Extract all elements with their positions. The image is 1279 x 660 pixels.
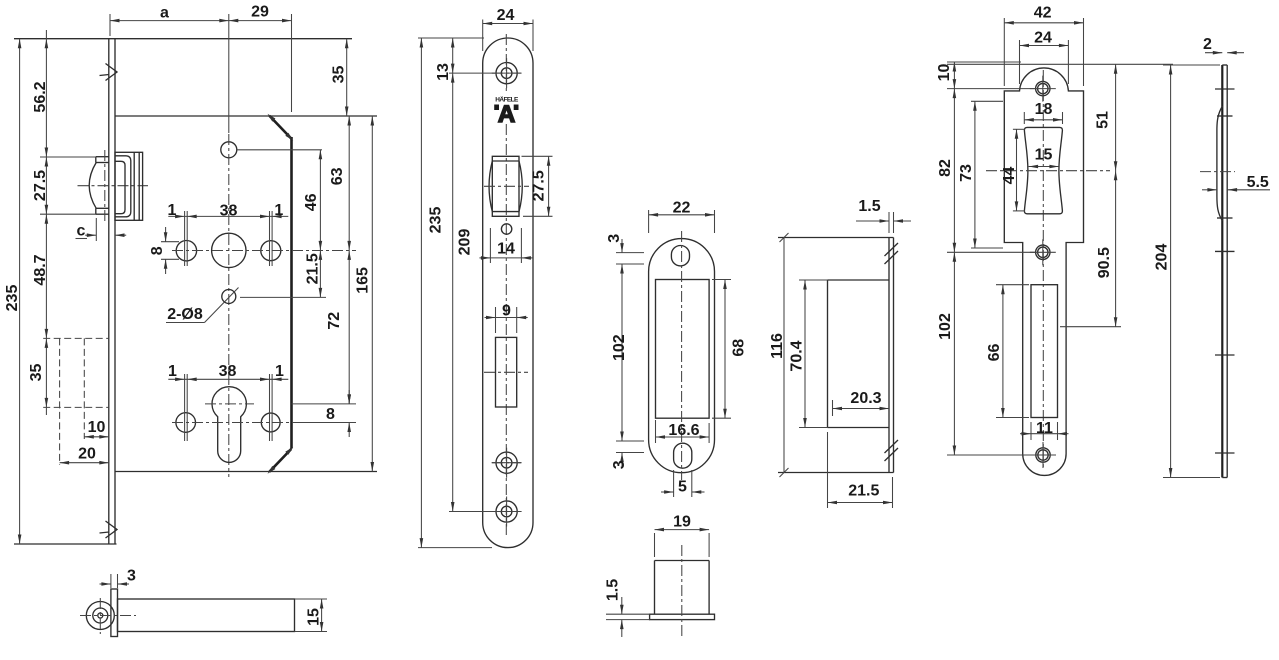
horizontal centerline lower holes: [172, 422, 356, 424]
horizontal centerline cylinder: [205, 403, 356, 405]
dimension 11: [1020, 420, 1069, 440]
screw hole 3: [1030, 442, 1056, 468]
dimension 2: [1203, 36, 1244, 55]
svg-text:19: 19: [673, 513, 691, 530]
svg-text:38: 38: [220, 203, 238, 220]
dimension 13 / 209: [435, 38, 474, 512]
dimension 16.6: [656, 420, 710, 443]
svg-text:63: 63: [329, 167, 346, 185]
latch bump side: [1217, 106, 1223, 221]
dimension 20: [60, 446, 109, 465]
screw hole middle: [492, 448, 522, 478]
faceplate (side view, 235 long): [14, 39, 352, 544]
latch bolt head: [89, 157, 109, 215]
svg-text:27.5: 27.5: [531, 170, 548, 201]
svg-text:46: 46: [303, 193, 320, 211]
section marks strike plate: [885, 243, 899, 461]
top fixing hole: [221, 142, 237, 158]
svg-text:5: 5: [678, 478, 687, 495]
svg-text:1: 1: [168, 363, 177, 380]
svg-text:82: 82: [937, 159, 954, 177]
dimension 22: [649, 200, 715, 233]
svg-text:204: 204: [1154, 244, 1171, 271]
svg-text:1: 1: [275, 363, 284, 380]
svg-text:22: 22: [673, 200, 691, 217]
dimension 21.5: [828, 432, 893, 508]
svg-text:102: 102: [611, 334, 628, 361]
dimension 10 / 82 / 102 chain: [936, 62, 1035, 455]
deadbolt slot: [496, 337, 517, 407]
vertical centerline lock body: [228, 134, 230, 477]
strike box housing: [828, 280, 890, 428]
svg-text:90.5: 90.5: [1096, 247, 1113, 278]
oval slot top: [671, 246, 689, 266]
svg-text:20: 20: [78, 446, 96, 463]
dimension 66: [986, 285, 1029, 418]
svg-text:29: 29: [251, 4, 269, 21]
strike side plate: [778, 238, 894, 473]
dimension 116: [769, 233, 788, 477]
dimension 1-38-1 lower: [168, 363, 288, 381]
dimension 204: [1154, 65, 1220, 478]
svg-text:35: 35: [331, 66, 348, 84]
spindle roller: [86, 602, 114, 630]
oval strike plate outline: [649, 239, 715, 473]
svg-text:42: 42: [1034, 5, 1052, 22]
svg-text:48.7: 48.7: [32, 254, 49, 285]
horizontal centerline upper holes: [172, 250, 356, 252]
svg-text:3: 3: [127, 568, 136, 585]
strike slot: [1031, 285, 1058, 418]
profile cylinder hole: [212, 387, 246, 463]
dimension 27.5 (latch): [522, 156, 553, 216]
svg-text:21.5: 21.5: [304, 253, 321, 284]
dimension 20.3: [833, 390, 890, 416]
svg-text:13: 13: [435, 63, 452, 81]
dimension 1-38-1 upper: [168, 202, 289, 219]
svg-text:24: 24: [497, 7, 515, 24]
latch horizontal centerline: [484, 185, 529, 187]
latch front view: [489, 156, 522, 216]
svg-text:5.5: 5.5: [1247, 174, 1269, 191]
strike plate outline: [1004, 68, 1083, 475]
cylinder hole left: [176, 413, 196, 433]
svg-text:235: 235: [428, 207, 445, 234]
svg-text:72: 72: [326, 312, 343, 330]
dimension 14: [479, 228, 532, 263]
magnet cup body: [655, 561, 710, 615]
dimension c: [76, 218, 127, 241]
svg-text:3: 3: [611, 460, 628, 469]
dimension 10: [84, 419, 109, 439]
svg-text:56.2: 56.2: [32, 81, 49, 112]
svg-text:70.4: 70.4: [789, 340, 806, 371]
oval plate centerline: [681, 231, 683, 480]
dimension 3 (flange): [100, 568, 137, 589]
svg-text:35: 35: [28, 364, 45, 382]
extension line top hole: [238, 149, 323, 151]
svg-text:116: 116: [769, 333, 786, 359]
dimension 3 / 102 / 3 left: [606, 234, 644, 469]
svg-text:2-Ø8: 2-Ø8: [167, 306, 203, 323]
dimension 24 (tab): [1020, 30, 1069, 84]
svg-text:165: 165: [355, 267, 372, 294]
strike plate side: [1222, 65, 1227, 478]
dimension 15 (bar): [295, 599, 328, 632]
latch pin hole: [501, 224, 511, 234]
svg-text:15: 15: [306, 608, 323, 626]
dimension 9: [485, 303, 528, 333]
chamfer edge bottom (bold double arrow): [268, 447, 294, 474]
svg-text:38: 38: [219, 363, 237, 380]
magnet cup flange: [650, 614, 715, 619]
svg-text:73: 73: [958, 164, 975, 182]
screw hole 1: [1030, 76, 1056, 102]
oval slot bottom: [674, 443, 692, 468]
offset lines upper right: [270, 211, 273, 266]
dimension 35 top right: [331, 39, 349, 116]
svg-text:10: 10: [936, 64, 953, 82]
häfele logo: [494, 96, 519, 129]
dimension 235 (plate): [420, 38, 445, 548]
spindle centerline: [80, 598, 136, 634]
extension line 2-Ø8 right: [240, 296, 326, 298]
svg-text:c: c: [77, 222, 86, 239]
hole 2-Ø8: [222, 290, 236, 304]
svg-text:2: 2: [1203, 36, 1212, 53]
screw hole bottom: [492, 497, 522, 527]
faceplate break mark top: [100, 64, 118, 81]
dimension 18: [1024, 101, 1062, 124]
cutout horizontal centerline: [986, 170, 1110, 172]
svg-text:18: 18: [1035, 101, 1053, 118]
dimension 19: [655, 513, 710, 557]
faceplate break mark bottom: [100, 521, 118, 538]
dimension 8 upper: [149, 227, 179, 274]
dimension 73: [958, 101, 1003, 248]
dimension 5.5: [1202, 174, 1270, 192]
dimension 44: [1001, 129, 1025, 211]
dimension 24 top (plate width): [483, 7, 533, 51]
dimension 70.4: [789, 280, 828, 428]
side view tick marks: [1215, 89, 1235, 453]
svg-text:1: 1: [274, 202, 283, 219]
dimension 1.5 (cup flange): [605, 579, 650, 637]
deadbolt hidden lines: [43, 338, 109, 465]
dimension chain left (56.2/27.5/48.7/35): [28, 30, 49, 415]
svg-text:8: 8: [326, 406, 335, 423]
svg-text:9: 9: [502, 303, 511, 320]
offset lines lower left: [185, 374, 188, 441]
side view centerline: [1200, 171, 1235, 173]
svg-text:1: 1: [168, 202, 177, 219]
screw centerlines: [492, 73, 521, 511]
slot centerline: [484, 371, 528, 373]
label 2-Ø8 with leader: [166, 288, 239, 324]
handle hole right: [261, 241, 281, 261]
svg-text:14: 14: [497, 241, 515, 258]
svg-text:15: 15: [1035, 146, 1053, 163]
dimension 5: [661, 470, 705, 497]
dimension 15 (waist): [1029, 146, 1059, 168]
latch spring housing: [115, 152, 143, 220]
face plate centerline: [505, 34, 507, 538]
follower hole: [212, 233, 246, 267]
dimension a / 29 top: [110, 4, 292, 134]
svg-text:209: 209: [457, 229, 474, 256]
svg-text:21.5: 21.5: [848, 483, 879, 500]
latch cutout: [1024, 127, 1062, 213]
dimension 68: [712, 280, 748, 419]
screw hole top: [492, 58, 522, 88]
svg-text:24: 24: [1034, 30, 1052, 47]
chamfer edge top (bold double arrow): [268, 114, 294, 141]
dimension 8 lower: [326, 390, 351, 437]
svg-text:27.5: 27.5: [32, 170, 49, 201]
svg-text:44: 44: [1001, 166, 1018, 184]
dimension 63 / 72: [326, 116, 351, 404]
svg-text:235: 235: [4, 285, 21, 312]
svg-text:102: 102: [937, 313, 954, 340]
screw hole 2: [1030, 239, 1056, 265]
handle hole left: [176, 241, 196, 261]
face plate front outline: [483, 38, 533, 548]
extension lines latch left: [40, 157, 96, 214]
svg-text:11: 11: [1036, 420, 1053, 437]
svg-text:10: 10: [88, 419, 106, 436]
dimension 235 left: [4, 39, 21, 544]
svg-text:A: A: [498, 101, 515, 128]
spindle part flange: [111, 589, 118, 637]
dimension 51 / 90.5: [947, 64, 1173, 326]
dimension 46 / 21.5: [303, 150, 322, 298]
oval plate window: [656, 280, 710, 419]
lock body outline: [115, 116, 377, 472]
svg-text:a: a: [160, 5, 169, 22]
dimension 42: [1004, 5, 1083, 87]
svg-text:16.6: 16.6: [668, 422, 699, 439]
svg-text:8: 8: [149, 246, 166, 255]
svg-text:1.5: 1.5: [605, 579, 622, 601]
svg-text:20.3: 20.3: [850, 390, 881, 407]
latch centerlines: [78, 150, 149, 221]
svg-text:66: 66: [986, 344, 1003, 362]
dimension 165: [355, 116, 374, 472]
spindle part bar: [118, 599, 295, 632]
extension lines plate left dims: [418, 38, 496, 548]
dimension 1.5 (plate): [856, 198, 911, 233]
svg-text:68: 68: [731, 339, 748, 357]
strike plate centerline: [1042, 70, 1044, 470]
svg-text:3: 3: [606, 234, 623, 243]
svg-text:1.5: 1.5: [858, 198, 880, 215]
offset lines upper left: [185, 211, 188, 266]
magnet cup centerline: [681, 545, 683, 637]
svg-text:51: 51: [1095, 111, 1112, 129]
cylinder hole right: [261, 413, 280, 432]
offset lines lower right: [270, 374, 273, 441]
